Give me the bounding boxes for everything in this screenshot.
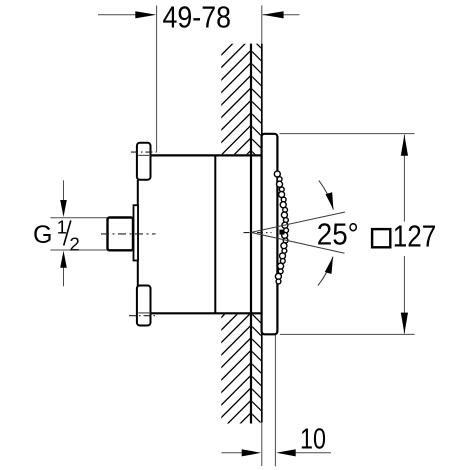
svg-text:49-78: 49-78 bbox=[163, 0, 232, 35]
svg-text:10: 10 bbox=[300, 424, 326, 456]
svg-text:2: 2 bbox=[70, 233, 80, 254]
svg-text:1: 1 bbox=[57, 217, 67, 238]
svg-text:G: G bbox=[33, 221, 52, 249]
svg-text:25°: 25° bbox=[317, 217, 359, 252]
svg-text:127: 127 bbox=[393, 218, 437, 253]
